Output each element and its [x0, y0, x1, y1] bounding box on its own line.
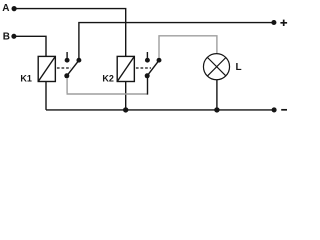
contact K2 left terminal dot	[145, 58, 150, 63]
lamp L body	[203, 54, 229, 80]
wire lamp bottom to minus rail	[216, 80, 218, 110]
svg-text:K1: K1	[20, 73, 32, 83]
svg-text:B: B	[3, 31, 10, 42]
minus sign	[281, 109, 287, 111]
junction dot K2 on minus rail	[123, 107, 128, 112]
contact K1 right terminal dot	[76, 58, 81, 63]
minus supply rail	[46, 109, 274, 111]
contact K1 left terminal dot	[65, 58, 70, 63]
wire K2 coil bottom to minus rail	[125, 82, 127, 110]
svg-text:A: A	[2, 3, 9, 14]
junction dot lamp on minus rail	[214, 107, 219, 112]
contact K1 common terminal dot	[64, 73, 69, 78]
wire K1 coil bottom to minus rail	[45, 82, 47, 110]
svg-text:K2: K2	[102, 73, 114, 83]
plus supply rail wire down to K1 contact	[79, 23, 274, 58]
lamp L cross	[208, 58, 226, 76]
node A terminal dot	[12, 6, 17, 11]
plus sign	[280, 20, 287, 26]
contact K2 actuation dashed link	[136, 67, 151, 69]
contact K2 common terminal dot	[145, 73, 150, 78]
gray wire K2 contact to lamp top	[159, 36, 217, 58]
relay coil K1 body	[38, 56, 55, 81]
wire from B to K1 coil top	[14, 36, 46, 56]
gray wire from K1 common down and right	[67, 78, 148, 94]
svg-text:L: L	[236, 62, 242, 73]
relay coil K1 diagonal	[38, 56, 55, 81]
relay coil K2 diagonal	[117, 56, 134, 81]
wire from gray link up to K2 common	[147, 77, 149, 95]
minus rail end dot	[272, 107, 277, 112]
wire from A to K2 coil top	[14, 9, 126, 57]
contact K1 moving blade	[66, 59, 80, 77]
contact K1 actuation dashed link	[57, 67, 71, 69]
contact K2 moving blade	[147, 59, 161, 77]
node B terminal dot	[11, 34, 16, 39]
plus rail end dot	[271, 20, 276, 25]
relay coil K2 body	[117, 56, 134, 81]
contact K2 left terminal stub	[146, 52, 148, 58]
contact K2 right terminal dot	[157, 58, 162, 63]
contact K1 left terminal stub	[66, 52, 68, 58]
